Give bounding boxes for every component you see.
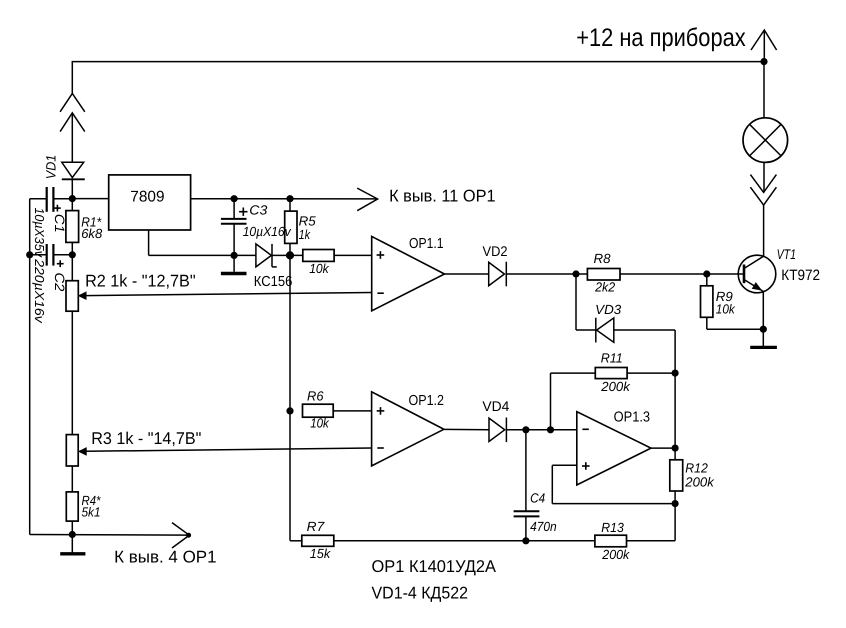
svg-text:10µX16v: 10µX16v bbox=[243, 224, 292, 239]
svg-text:C4: C4 bbox=[530, 491, 545, 506]
svg-text:6k8: 6k8 bbox=[81, 226, 103, 241]
svg-text:220µX16v: 220µX16v bbox=[32, 258, 47, 324]
svg-text:КТ972: КТ972 bbox=[781, 267, 820, 284]
svg-text:К выв. 4 ОР1: К выв. 4 ОР1 bbox=[114, 548, 217, 567]
svg-text:200k: 200k bbox=[600, 379, 631, 394]
svg-text:10k: 10k bbox=[309, 261, 330, 276]
svg-text:VD1: VD1 bbox=[44, 155, 59, 180]
svg-text:10k: 10k bbox=[310, 415, 330, 430]
svg-text:1k: 1k bbox=[299, 227, 312, 242]
svg-text:VD4: VD4 bbox=[482, 398, 509, 414]
svg-text:2k2: 2k2 bbox=[594, 279, 616, 294]
svg-text:R13: R13 bbox=[601, 520, 624, 535]
svg-text:R6: R6 bbox=[307, 388, 324, 403]
svg-text:R2 1k - "12,7В": R2 1k - "12,7В" bbox=[85, 271, 196, 290]
svg-text:C1: C1 bbox=[52, 214, 67, 233]
svg-text:C3: C3 bbox=[249, 203, 268, 218]
svg-text:10k: 10k bbox=[716, 302, 736, 317]
svg-text:+12 на приборах: +12 на приборах bbox=[576, 24, 746, 52]
svg-text:7809: 7809 bbox=[130, 188, 164, 205]
svg-text:15k: 15k bbox=[310, 546, 332, 561]
svg-text:C2: C2 bbox=[52, 272, 67, 292]
svg-text:VD3: VD3 bbox=[595, 302, 622, 317]
svg-text:OP1.2: OP1.2 bbox=[409, 393, 445, 409]
svg-text:R11: R11 bbox=[601, 350, 623, 365]
svg-text:ОР1 К1401УД2А: ОР1 К1401УД2А bbox=[372, 557, 497, 576]
svg-text:470n: 470n bbox=[530, 519, 557, 534]
svg-text:OP1.1: OP1.1 bbox=[409, 236, 444, 252]
svg-text:200k: 200k bbox=[684, 474, 715, 489]
svg-text:VD1-4 КД522: VD1-4 КД522 bbox=[372, 584, 469, 603]
svg-text:К выв. 11 ОР1: К выв. 11 ОР1 bbox=[389, 186, 496, 205]
svg-text:R3 1k - "14,7В": R3 1k - "14,7В" bbox=[91, 429, 201, 448]
svg-text:VT1: VT1 bbox=[777, 246, 797, 262]
svg-text:R7: R7 bbox=[307, 519, 325, 534]
svg-text:R8: R8 bbox=[594, 251, 612, 266]
svg-text:VD2: VD2 bbox=[483, 243, 508, 259]
svg-text:10µX35v: 10µX35v bbox=[32, 208, 47, 259]
svg-text:200k: 200k bbox=[601, 547, 630, 562]
svg-text:5k1: 5k1 bbox=[82, 504, 101, 519]
svg-text:OP1.3: OP1.3 bbox=[614, 410, 651, 426]
svg-text:КС156: КС156 bbox=[254, 274, 292, 290]
